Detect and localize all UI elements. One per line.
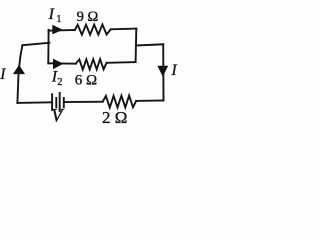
wire: top branch left segment bbox=[49, 29, 75, 32]
wire: top branch right segment bbox=[111, 28, 137, 31]
label 6 ohm bbox=[75, 72, 97, 88]
current arrow I2 bbox=[53, 59, 63, 70]
svg-text:I: I bbox=[0, 66, 6, 83]
label I2 bbox=[51, 69, 63, 89]
svg-text:6 Ω: 6 Ω bbox=[75, 72, 97, 88]
label I1 bbox=[48, 6, 62, 25]
wire: left tap (node A to left rail top corner) bbox=[22, 43, 49, 45]
label I left bbox=[0, 66, 6, 83]
wire: bottom right segment (resistor R3 to right rail) bbox=[136, 100, 163, 102]
label I right bbox=[171, 62, 178, 79]
svg-text:1: 1 bbox=[56, 14, 61, 25]
svg-text:I: I bbox=[171, 62, 178, 79]
battery V plate long right bbox=[59, 93, 61, 111]
current arrow I (down, right rail) bbox=[157, 66, 168, 77]
wire: bottom left segment (left rail to battery) bbox=[17, 101, 50, 104]
resistor R3 2ohm zigzag bbox=[103, 96, 137, 108]
wire: middle branch left segment bbox=[48, 62, 75, 64]
wire: middle branch right segment bbox=[107, 61, 136, 64]
label 9 ohm bbox=[77, 9, 99, 25]
svg-text:V: V bbox=[51, 107, 65, 127]
battery V plate long left bbox=[51, 94, 53, 110]
label 2 ohm bbox=[102, 108, 127, 127]
battery V plate short outer-right bbox=[63, 98, 65, 107]
svg-text:I: I bbox=[48, 6, 55, 23]
wire: bottom segment (battery to resistor R3) bbox=[65, 101, 102, 103]
battery V plate short inner-left bbox=[55, 98, 57, 107]
svg-text:2 Ω: 2 Ω bbox=[102, 108, 127, 127]
label V bbox=[51, 107, 65, 127]
wire: right parallel connector (vertical between branch ends) bbox=[135, 29, 138, 62]
wire: left parallel connector (vertical between branch ends) bbox=[47, 30, 49, 64]
current arrow I1 bbox=[52, 25, 63, 35]
wire: left rail vertical bbox=[17, 45, 22, 103]
current arrow I (up, left rail) bbox=[13, 65, 25, 74]
svg-text:2: 2 bbox=[57, 77, 62, 88]
wire: right tap (right connector to right rail) bbox=[136, 44, 163, 45]
resistor R2 6ohm zigzag bbox=[76, 59, 107, 70]
resistor R1 9ohm zigzag bbox=[75, 25, 111, 35]
svg-text:9 Ω: 9 Ω bbox=[77, 9, 99, 25]
wire: right rail vertical bbox=[162, 44, 164, 100]
